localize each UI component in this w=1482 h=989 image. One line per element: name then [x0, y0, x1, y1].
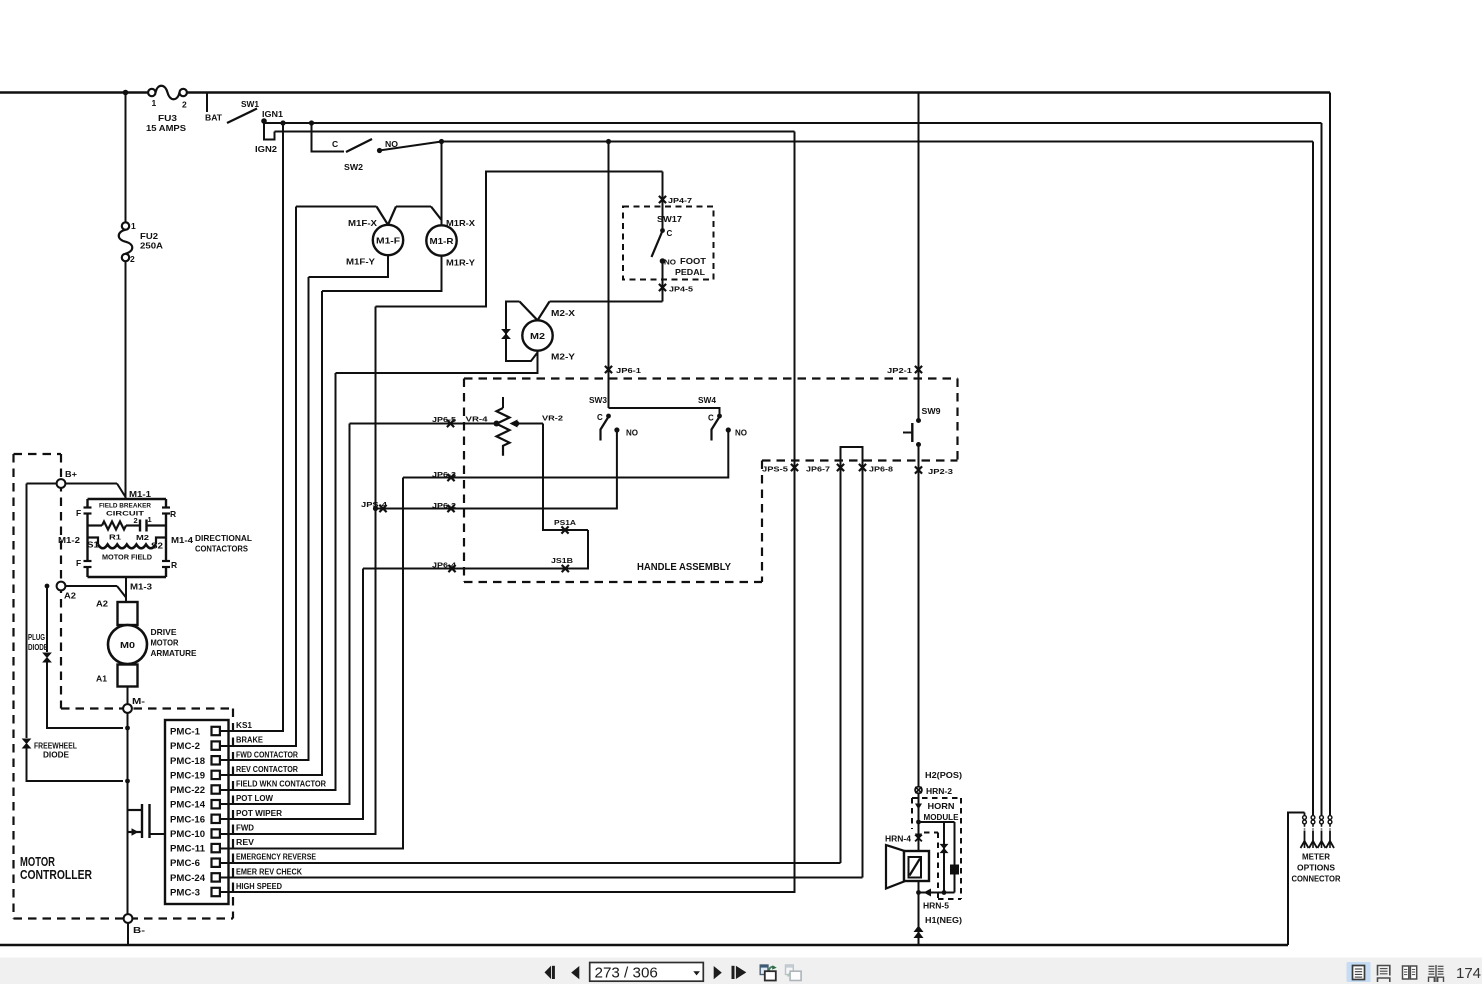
svg-text:M1-2: M1-2: [58, 536, 81, 545]
connector PMC motor controller plug: [165, 720, 229, 904]
connector JP6-2: [432, 501, 456, 512]
svg-text:A1: A1: [96, 675, 108, 684]
wire REV net: [220, 478, 403, 849]
svg-text:M-: M-: [132, 697, 145, 706]
svg-text:M1F-Y: M1F-Y: [346, 257, 375, 267]
svg-text:JP2-1: JP2-1: [887, 366, 912, 375]
toolbar single page mode selected: [1347, 962, 1371, 982]
wire REV CONTACTOR net: [220, 291, 322, 775]
svg-text:SW1: SW1: [241, 99, 259, 109]
svg-text:PMC-11: PMC-11: [170, 844, 206, 855]
contactor coil M1-R: [426, 142, 475, 268]
connector PS1A: [554, 518, 577, 534]
svg-text:NO: NO: [626, 429, 638, 438]
svg-text:CIRCUIT: CIRCUIT: [106, 511, 144, 518]
svg-text:C: C: [332, 139, 338, 149]
svg-text:HRN-4: HRN-4: [885, 835, 912, 844]
svg-text:R1: R1: [109, 533, 121, 542]
svg-text:PMC-1: PMC-1: [170, 727, 201, 738]
pin PMC-2 BRAKE: [170, 736, 264, 753]
wire EMER REV CHECK net: [220, 877, 863, 879]
svg-text:250A: 250A: [140, 241, 163, 251]
connector JPS-5: [762, 464, 798, 474]
wire M2-X to foot pedal output: [550, 301, 663, 303]
svg-text:NO: NO: [735, 429, 747, 438]
wire POT WIPER net: [220, 569, 363, 820]
wire battery positive top bus: [0, 90, 1330, 96]
horn module dashed enclosure: [912, 798, 961, 899]
svg-text:HANDLE ASSEMBLY: HANDLE ASSEMBLY: [637, 562, 731, 573]
wire HIGH SPEED net: [220, 132, 795, 893]
contact F forward bottom: [76, 558, 92, 568]
wire foot pedal feed: [376, 172, 663, 307]
wire M1F-Y lead: [309, 255, 389, 277]
fuse FU3 15 AMPS: [146, 86, 187, 133]
wire IGN2 feed line: [275, 131, 795, 133]
svg-text:JS1B: JS1B: [551, 556, 574, 565]
pin PMC-14 POT LOW: [170, 794, 273, 811]
svg-text:PMC-24: PMC-24: [170, 873, 206, 884]
contact F forward top: [76, 508, 92, 519]
connector HRN-5: [923, 889, 950, 911]
svg-text:PMC-19: PMC-19: [170, 770, 205, 781]
wire IGN1 feed line: [264, 120, 1322, 125]
svg-text:DIODE: DIODE: [28, 643, 49, 652]
wire FIELD WKN CONTACTOR net: [220, 373, 336, 790]
diode M2 flyback loop: [502, 302, 538, 362]
pin PMC-3 HIGH SPEED: [170, 882, 282, 899]
svg-text:M1-1: M1-1: [129, 490, 152, 499]
wire FWD net: [220, 307, 376, 835]
wire SW3 NO to JP6-2 row: [373, 430, 617, 511]
connector JP2-3: [915, 445, 953, 791]
svg-text:M1-3: M1-3: [130, 583, 153, 592]
svg-text:REV CONTACTOR: REV CONTACTOR: [236, 765, 298, 774]
svg-text:CONNECTOR: CONNECTOR: [1292, 874, 1341, 884]
svg-text:C: C: [597, 413, 603, 422]
svg-text:VR-2: VR-2: [542, 414, 563, 423]
node M-: [123, 697, 145, 713]
svg-text:C: C: [708, 414, 714, 423]
toolbar background: [0, 958, 1482, 985]
connector JP4-5: [659, 261, 693, 302]
resistor R1: [88, 522, 127, 542]
wire POT LOW net: [220, 424, 350, 805]
diode plug diode: [28, 584, 123, 728]
switch SW3: [589, 395, 720, 441]
wire M1 coil X common: [296, 206, 377, 208]
wire meter feed from battery bus: [1329, 93, 1331, 816]
connector JP6-7: [806, 464, 844, 474]
svg-text:SW9: SW9: [922, 406, 941, 416]
svg-text:F: F: [76, 508, 81, 518]
svg-text:2: 2: [134, 516, 138, 525]
toolbar next page button: [714, 966, 722, 979]
svg-text:KS1: KS1: [236, 721, 253, 730]
wire JP6-7 JP6-8 jumper loop: [841, 447, 863, 878]
svg-text:M0: M0: [120, 640, 135, 650]
toolbar two page mode icon: [1403, 966, 1417, 979]
svg-text:DIODE: DIODE: [43, 751, 70, 760]
toolbar next view icon disabled: [786, 965, 802, 981]
svg-text:PMC-6: PMC-6: [170, 858, 200, 869]
toolbar first page button: [545, 966, 555, 979]
svg-text:M1-R: M1-R: [430, 236, 454, 246]
wire A2 to M1-3: [65, 583, 152, 598]
svg-text:JPS-5: JPS-5: [762, 465, 788, 474]
toolbar last page button: [732, 966, 747, 979]
connector JP6-5 wiper row: [350, 420, 500, 427]
wire M1F-X to M1R-X: [396, 206, 431, 208]
wire EMERGENCY REVERSE net: [220, 862, 841, 864]
connector JP6-4: [432, 561, 457, 573]
switch SW4: [698, 395, 747, 441]
wire JP2-1 drop from bus: [918, 93, 920, 421]
pin PMC-22 FIELD WKN CONTACTOR: [170, 780, 326, 797]
svg-text:M1-4: M1-4: [171, 536, 194, 545]
svg-text:FOOT: FOOT: [680, 256, 707, 266]
svg-text:SW3: SW3: [589, 395, 607, 405]
svg-text:MODULE: MODULE: [924, 812, 959, 822]
wire FWD CONTACTOR net: [220, 277, 309, 760]
toolbar previous view icon: [760, 965, 777, 981]
inductor motor field winding: [87, 538, 166, 562]
svg-text:IGN2: IGN2: [255, 145, 278, 154]
svg-text:JP6-3: JP6-3: [432, 470, 456, 479]
svg-text:PMC-14: PMC-14: [170, 800, 206, 811]
wire VR-2 to PS1A: [543, 424, 588, 531]
pin PMC-16 POT WIPER: [170, 809, 282, 826]
wire SW2 NO feed line: [439, 139, 1313, 144]
svg-text:H2(POS): H2(POS): [925, 771, 962, 780]
connector JP6-3: [432, 470, 456, 481]
svg-text:IGN1: IGN1: [262, 110, 284, 119]
svg-text:NO: NO: [664, 258, 676, 267]
pin PMC-18 FWD CONTACTOR: [170, 750, 298, 767]
switch SW9 horn button: [903, 406, 941, 447]
contactor coil M1-F: [346, 207, 403, 267]
connector JPS-4: [361, 500, 388, 512]
switch SW2: [312, 123, 442, 172]
contactor M1 field breaker circuit box: [88, 499, 167, 577]
svg-text:F: F: [76, 558, 81, 568]
handle assembly dashed enclosure: [464, 379, 958, 583]
pin PMC-24 EMER REV CHECK: [170, 867, 302, 884]
potentiometer VR-4: [432, 397, 510, 456]
wire PS1A to JS1B: [363, 530, 588, 569]
svg-text:JP4-7: JP4-7: [668, 196, 692, 205]
svg-text:DRIVE: DRIVE: [151, 627, 177, 637]
pin PMC-1 KS1: [170, 721, 253, 738]
toolbar continuous scroll mode icon: [1378, 966, 1390, 983]
svg-text:1: 1: [152, 98, 157, 108]
pin PMC-10 FWD: [170, 824, 254, 841]
connector JP2-1: [887, 366, 922, 375]
contact R reverse top: [162, 508, 176, 520]
wire SW4 NO to JP6-3 row: [403, 430, 728, 478]
motor controller dashed enclosure: [14, 454, 234, 919]
svg-text:HIGH SPEED: HIGH SPEED: [236, 882, 282, 891]
toolbar two page scroll mode icon: [1429, 965, 1444, 982]
svg-text:HORN: HORN: [928, 801, 955, 811]
svg-text:DIRECTIONAL: DIRECTIONAL: [195, 533, 252, 543]
svg-text:PMC-18: PMC-18: [170, 756, 205, 767]
svg-text:M2-X: M2-X: [551, 308, 575, 318]
svg-text:FU2: FU2: [140, 231, 158, 241]
svg-text:PMC-16: PMC-16: [170, 814, 205, 825]
svg-text:273 / 306: 273 / 306: [595, 964, 658, 981]
svg-text:M1F-X: M1F-X: [348, 218, 377, 228]
node B-: [124, 914, 146, 935]
svg-text:PMC-2: PMC-2: [170, 741, 200, 752]
node IGN1 connector: [255, 110, 284, 154]
fuse FU2 250A: [119, 93, 163, 500]
svg-text:M1-F: M1-F: [376, 236, 400, 246]
svg-text:S2: S2: [151, 542, 164, 551]
svg-text:FWD CONTACTOR: FWD CONTACTOR: [236, 750, 298, 759]
svg-text:1: 1: [131, 221, 136, 231]
connector meter options: [1301, 813, 1335, 849]
pin PMC-6 EMERGENCY REVERSE: [170, 853, 317, 870]
svg-text:C: C: [667, 229, 673, 238]
svg-text:PMC-22: PMC-22: [170, 785, 205, 796]
svg-text:JP6-1: JP6-1: [616, 366, 641, 375]
svg-text:EMER REV CHECK: EMER REV CHECK: [236, 867, 302, 876]
toolbar page number input: [590, 963, 704, 982]
connector JP6-1: [605, 142, 641, 409]
svg-text:PS1A: PS1A: [554, 518, 577, 527]
wire KS1 net: [220, 123, 283, 731]
wire VR-2 wiper arrow: [510, 414, 564, 428]
transistor Q1 mosfet: [128, 804, 166, 838]
wire B- to meter connector bus: [0, 813, 1305, 946]
svg-text:JP2-3: JP2-3: [928, 467, 953, 476]
svg-text:MOTOR FIELD: MOTOR FIELD: [102, 553, 153, 562]
capacitor M2 breaker: [126, 515, 166, 542]
connector JP4-7: [659, 172, 692, 230]
contactor coil M2 field weakening: [520, 302, 576, 362]
wire BRAKE net: [220, 207, 296, 747]
svg-text:POT LOW: POT LOW: [236, 794, 273, 803]
svg-text:JP6-7: JP6-7: [806, 465, 830, 474]
svg-text:A2: A2: [64, 591, 76, 601]
svg-text:M2: M2: [530, 331, 545, 341]
wire M2-Y lead: [336, 351, 538, 373]
svg-text:M1R-X: M1R-X: [446, 218, 475, 228]
connector HRN-2: [915, 787, 952, 796]
svg-text:FREEWHEEL: FREEWHEEL: [34, 742, 77, 751]
svg-text:JP6-8: JP6-8: [869, 465, 893, 474]
connector JS1B: [551, 556, 574, 572]
wire horn branch vertical: [918, 794, 920, 946]
toolbar previous page button: [571, 966, 579, 979]
connector HRN-4: [885, 834, 922, 844]
svg-text:FWD: FWD: [236, 824, 254, 833]
svg-text:FIELD BREAKER: FIELD BREAKER: [99, 503, 151, 510]
svg-text:R: R: [171, 560, 177, 570]
resistor horn module block: [950, 822, 959, 893]
wire meter feed from IGN1 line: [1321, 123, 1323, 815]
svg-text:S1: S1: [87, 541, 100, 550]
wire horn module internal top rail: [915, 804, 955, 825]
node H1(NEG): [914, 916, 963, 938]
svg-text:BAT: BAT: [205, 113, 223, 123]
connector JP6-8: [859, 464, 893, 474]
motor M0 drive motor armature: [96, 600, 197, 687]
svg-text:MOTOR: MOTOR: [151, 638, 179, 648]
svg-text:MOTOR: MOTOR: [20, 855, 55, 869]
switch SW17 foot pedal: [623, 207, 714, 280]
svg-text:1: 1: [148, 515, 152, 524]
wire B+ to M1-1: [65, 484, 151, 500]
svg-text:SW17: SW17: [657, 214, 682, 224]
wire M1R-Y lead: [322, 256, 442, 291]
svg-text:PEDAL: PEDAL: [675, 267, 705, 277]
svg-text:M1R-Y: M1R-Y: [446, 258, 475, 268]
diode freewheel diode: [23, 484, 124, 782]
speaker horn: [886, 845, 929, 889]
svg-text:B-: B-: [133, 925, 145, 935]
svg-text:EMERGENCY REVERSE: EMERGENCY REVERSE: [236, 853, 317, 862]
wire meter feed from SW2 NO line: [1312, 142, 1314, 816]
meter options connector label: [1292, 852, 1341, 884]
directional contactors label: [195, 533, 252, 554]
svg-text:CONTROLLER: CONTROLLER: [20, 868, 92, 882]
diode horn module: [940, 822, 947, 893]
svg-text:REV: REV: [236, 838, 255, 847]
svg-text:JP4-5: JP4-5: [669, 285, 693, 294]
svg-text:H1(NEG): H1(NEG): [925, 916, 962, 925]
svg-text:2: 2: [182, 100, 187, 110]
svg-text:ARMATURE: ARMATURE: [151, 648, 197, 658]
svg-text:HRN-2: HRN-2: [926, 787, 953, 796]
svg-text:PLUG: PLUG: [28, 633, 45, 642]
svg-text:JP6-2: JP6-2: [432, 501, 456, 510]
svg-text:SW2: SW2: [344, 162, 363, 172]
svg-text:2: 2: [130, 254, 135, 264]
svg-text:PMC-10: PMC-10: [170, 829, 205, 840]
svg-text:R: R: [170, 509, 176, 519]
wire armature to mosfet: [125, 687, 130, 915]
svg-text:SW4: SW4: [698, 395, 716, 405]
svg-text:174: 174: [1456, 965, 1481, 982]
node B+: [57, 469, 77, 488]
svg-text:PMC-3: PMC-3: [170, 888, 200, 899]
svg-text:FIELD WKN CONTACTOR: FIELD WKN CONTACTOR: [236, 780, 326, 789]
wire M1-3 vertical: [125, 577, 127, 602]
svg-text:BRAKE: BRAKE: [236, 736, 264, 745]
svg-text:15 AMPS: 15 AMPS: [146, 123, 186, 133]
node A2: [57, 582, 77, 601]
svg-text:POT WIPER: POT WIPER: [236, 809, 282, 818]
svg-text:CONTACTORS: CONTACTORS: [195, 544, 248, 554]
svg-text:A2: A2: [96, 600, 109, 609]
svg-text:M2-Y: M2-Y: [551, 352, 575, 362]
svg-text:HRN-5: HRN-5: [923, 902, 950, 911]
svg-text:M2: M2: [136, 533, 149, 542]
svg-text:FU3: FU3: [158, 113, 177, 123]
pin PMC-11 REV: [170, 838, 255, 855]
svg-text:METER: METER: [1302, 852, 1330, 862]
contact R reverse bottom: [162, 560, 177, 570]
svg-text:OPTIONS: OPTIONS: [1297, 863, 1335, 873]
wire horn module internal bottom rail: [916, 890, 954, 895]
svg-text:JP6-4: JP6-4: [432, 561, 457, 570]
svg-text:VR-4: VR-4: [466, 415, 489, 424]
pin PMC-19 REV CONTACTOR: [170, 765, 298, 782]
switch SW1 key switch BAT side: [205, 93, 259, 124]
svg-text:B+: B+: [65, 469, 77, 479]
